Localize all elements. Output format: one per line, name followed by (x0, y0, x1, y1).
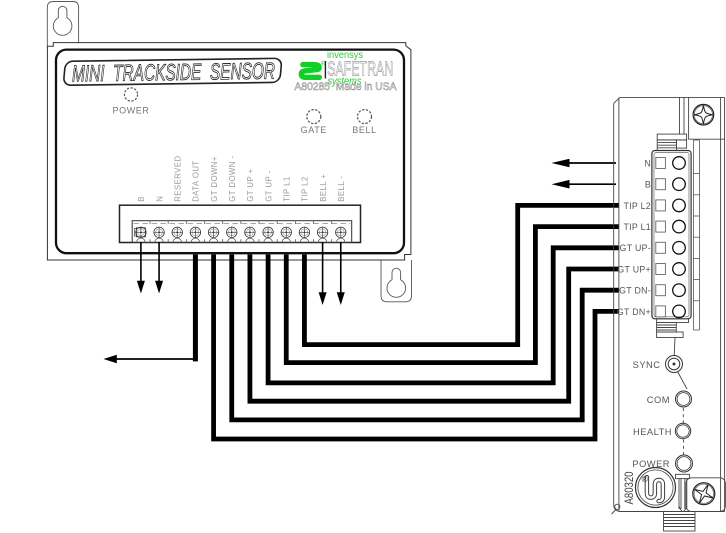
svg-text:®: ® (642, 474, 649, 484)
bottom latch block (664, 512, 696, 532)
wire N with down arrow (155, 242, 163, 294)
svg-text:A80285 Made in USA: A80285 Made in USA (295, 81, 398, 93)
sensor terminal GT UP - (262, 221, 277, 243)
LED BELL (352, 110, 376, 135)
terminal recess rectangle (120, 205, 361, 242)
svg-text:GT DOWN -: GT DOWN - (228, 155, 237, 201)
module terminal N (656, 157, 686, 170)
svg-text:RESERVED: RESERVED (173, 155, 182, 201)
sensor terminal BELL + (317, 221, 332, 243)
sensor terminal N (153, 221, 168, 243)
svg-text:GT UP -: GT UP - (264, 170, 273, 201)
svg-text:TIP L2: TIP L2 (301, 176, 310, 202)
LED HEALTH (633, 423, 691, 438)
dash link COM-HEALTH (682, 408, 684, 423)
svg-text:BELL -: BELL - (337, 176, 346, 202)
module terminal B (656, 178, 686, 191)
sensor terminal DATA OUT (190, 221, 205, 243)
svg-text:TIP L1: TIP L1 (623, 222, 651, 232)
svg-text:GT DOWN+: GT DOWN+ (210, 156, 219, 202)
LED POWER (112, 88, 149, 116)
sensor terminal GT DOWN+ (208, 221, 223, 243)
mounting tab bottom-right with keyhole slot (381, 260, 412, 302)
svg-text:GT UP+: GT UP+ (617, 264, 651, 274)
svg-text:N: N (155, 196, 164, 202)
module terminal block cap (top) (657, 134, 686, 150)
wire B with down arrow (137, 242, 145, 294)
module terminal block body (652, 151, 691, 319)
svg-text:B: B (137, 196, 146, 202)
wire module B with left arrow (552, 180, 617, 189)
dash link HEALTH-POWER (683, 440, 685, 456)
sensor terminal block (132, 221, 352, 243)
wire GT UP+ (sensor to module) (250, 255, 619, 402)
svg-text:HEALTH: HEALTH (633, 427, 672, 437)
LED COM (647, 391, 692, 407)
svg-text:GT UP +: GT UP + (246, 168, 255, 201)
wire module N with left arrow (552, 159, 617, 168)
svg-text:POWER: POWER (632, 459, 670, 469)
svg-text:GT DN-: GT DN- (619, 286, 651, 296)
wire GT UP- (sensor to module) (268, 248, 619, 383)
wire TIP L2 (sensor to module) (304, 205, 618, 344)
sensor terminal RESERVED (172, 221, 187, 243)
sensor terminal TIP L2 (299, 221, 314, 243)
wire BELL+ with down arrow (319, 242, 327, 305)
connector SYNC (633, 356, 683, 373)
svg-text:COM: COM (647, 395, 670, 405)
module terminal block cap (bottom) (657, 319, 689, 338)
svg-text:GATE: GATE (301, 125, 327, 135)
svg-text:N: N (644, 158, 651, 168)
module terminal GT UP+ (656, 263, 686, 276)
module A80320 panel outline (612, 97, 725, 514)
svg-text:TIP L2: TIP L2 (623, 201, 651, 211)
module terminal TIP L1 (656, 220, 686, 233)
svg-text:TIP L1: TIP L1 (282, 176, 291, 202)
sensor terminal BELL - (335, 227, 346, 243)
wire DATA OUT with left arrow (104, 255, 196, 364)
ejector lever (676, 474, 690, 511)
module terminal GT UP- (656, 242, 686, 255)
sensor terminal GT DOWN - (226, 221, 241, 243)
top screw (phillips) (693, 104, 714, 125)
svg-text:POWER: POWER (112, 106, 149, 116)
bottom screw (torx) (693, 483, 715, 505)
wire GT DN- (sensor to module) (232, 255, 619, 420)
svg-text:GT DN+: GT DN+ (617, 307, 651, 317)
svg-text:SYNC: SYNC (633, 360, 661, 370)
diagonal link SYNC to COM (678, 372, 688, 390)
wire GT DN+ (sensor to module) (214, 255, 619, 440)
module top screw plate (680, 97, 725, 139)
bottom screw plate (686, 478, 726, 512)
sensor terminal TIP L1 (281, 221, 296, 243)
module terminal rail (right) (693, 140, 699, 330)
link line to SYNC (673, 338, 676, 356)
svg-text:DATA OUT: DATA OUT (192, 160, 201, 201)
LED GATE (301, 110, 327, 135)
LED POWER (module) (632, 455, 692, 472)
sensor front face (rounded bezel) (56, 50, 404, 254)
nameplate MINI TRACKSIDE SENSOR (63, 57, 282, 86)
svg-text:MINI TRACKSIDE SENSOR: MINI TRACKSIDE SENSOR (72, 58, 275, 87)
module terminal GT DN- (656, 284, 686, 297)
svg-text:BELL +: BELL + (319, 174, 328, 202)
sensor terminal B (135, 221, 150, 243)
module terminal GT DN+ (656, 305, 686, 318)
module terminal TIP L2 (656, 199, 686, 212)
svg-text:BELL: BELL (352, 125, 376, 135)
wire TIP L1 (sensor to module) (286, 227, 619, 363)
sensor back plate outline (47, 43, 411, 260)
wire BELL- with down arrow (337, 242, 345, 305)
sensor terminal GT UP + (244, 221, 259, 243)
safetran round badge (636, 468, 676, 508)
svg-text:B: B (645, 180, 651, 190)
svg-text:A80320: A80320 (622, 471, 636, 504)
svg-text:GT UP-: GT UP- (620, 243, 651, 253)
mounting tab top-left with keyhole slot (47, 2, 78, 47)
logo invensys SAFETRAN systems (301, 50, 393, 88)
